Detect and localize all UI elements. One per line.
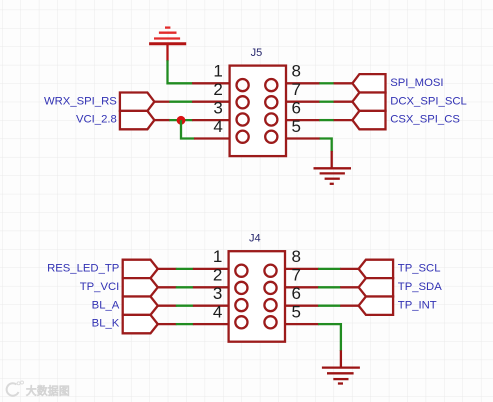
J4 pin circles (235, 265, 276, 329)
svg-text:BL_A: BL_A (92, 299, 120, 311)
wire stub from left port pin2 J4 (158, 286, 177, 288)
J5 pin circles (237, 79, 278, 143)
wire pin7 J4 (318, 286, 341, 288)
wire stub to port pin8 J4 (340, 268, 359, 270)
pin 4 stub J4 (193, 323, 230, 325)
J5 pin numbers right (292, 62, 301, 136)
svg-text:3: 3 (213, 98, 222, 117)
svg-text:RES_LED_TP: RES_LED_TP (47, 263, 119, 275)
svg-text:BL_K: BL_K (92, 318, 120, 330)
port WRX_SPI_RS (120, 93, 154, 111)
wire pin4 J4 (176, 323, 194, 325)
svg-text:2: 2 (213, 80, 222, 99)
wire pin6 J5 (319, 119, 334, 121)
wire pin8 J4 (318, 268, 341, 270)
pin 1 stub J5 (192, 82, 231, 84)
wire pin2 J4 (176, 286, 194, 288)
port CSX_SPI_CS (352, 111, 385, 129)
wire stub from VCI_2.8 port (154, 119, 170, 121)
wire pin8 J5 (319, 82, 334, 84)
pin 8 stub J5 (285, 82, 320, 84)
svg-text:1: 1 (213, 247, 222, 266)
svg-text:SPI_MOSI: SPI_MOSI (390, 77, 443, 89)
connector J4 body (229, 251, 285, 342)
wire stub to port pin6 (334, 119, 353, 121)
pin 7 stub J5 (285, 101, 320, 103)
port TP_SCL (359, 260, 394, 278)
svg-text:TP_INT: TP_INT (398, 299, 437, 311)
pin 6 stub J4 (284, 305, 319, 307)
pin 5 stub J4 (284, 323, 319, 325)
junction dot node VCI_2.8 (177, 116, 186, 125)
port DCX_SPI_SCL (352, 93, 385, 111)
svg-text:VCI_2.8: VCI_2.8 (76, 114, 117, 126)
svg-text:TP_SCL: TP_SCL (398, 263, 441, 275)
svg-text:4: 4 (213, 302, 222, 321)
watermark (7, 381, 70, 398)
pin 6 stub J5 (285, 119, 320, 121)
wire stub from WRX_SPI_RS port (154, 101, 170, 103)
wire pin2 J5 (169, 101, 192, 103)
ground stem J5 (331, 151, 333, 168)
pin 8 stub J4 (284, 268, 319, 270)
ground GND2 (322, 368, 360, 384)
svg-text:6: 6 (292, 98, 301, 117)
wire stub from left port pin1 J4 (158, 268, 177, 270)
svg-text:CSX_SPI_CS: CSX_SPI_CS (390, 114, 460, 126)
wire pin5 J5 to ground (320, 139, 332, 152)
svg-text:1: 1 (213, 62, 222, 81)
wire pin3 J4 (176, 305, 194, 307)
wire pin5 J4 to ground (318, 324, 341, 351)
svg-text:J4: J4 (249, 232, 261, 244)
svg-text:J5: J5 (251, 47, 263, 59)
svg-text:TP_SDA: TP_SDA (398, 281, 442, 293)
svg-text:8: 8 (292, 62, 301, 81)
svg-text:5: 5 (292, 117, 301, 136)
pin 7 stub J4 (284, 286, 319, 288)
pin 3 stub J4 (193, 305, 230, 307)
power symbol PWR (inverted earth) (149, 28, 186, 62)
pin 1 stub J4 (193, 268, 230, 270)
wire branch dot to pin4 J5 (181, 120, 195, 138)
pin 4 stub J5 (194, 137, 231, 139)
pin 3 stub J5 (192, 119, 231, 121)
svg-text:TP_VCI: TP_VCI (80, 281, 120, 293)
svg-text:WRX_SPI_RS: WRX_SPI_RS (44, 95, 117, 107)
wire pin1 J4 (176, 268, 194, 270)
J4 pin numbers right (292, 247, 301, 321)
wire stub to port pin6 J4 (340, 305, 359, 307)
J4 pin numbers left (213, 247, 222, 321)
pin 5 stub J5 (285, 137, 320, 139)
wire stub to port pin8 (334, 82, 353, 84)
wire pin6 J4 (318, 305, 341, 307)
J5 pin numbers left (213, 62, 222, 136)
ground stem J4 (340, 350, 342, 367)
wire stub to port pin7 J4 (340, 286, 359, 288)
svg-text:3: 3 (213, 284, 222, 303)
wire pin7 J5 (319, 101, 334, 103)
pin 2 stub J4 (193, 286, 230, 288)
svg-text:6: 6 (292, 284, 301, 303)
svg-text:2: 2 (213, 266, 222, 285)
svg-text:DCX_SPI_SCL: DCX_SPI_SCL (390, 95, 467, 107)
wire stub from left port pin3 J4 (158, 305, 177, 307)
port VCI_2.8 (120, 111, 154, 129)
connector J5 body (230, 66, 286, 157)
svg-text:7: 7 (292, 266, 301, 285)
port TP_INT (359, 297, 394, 315)
svg-text:大数据图: 大数据图 (26, 384, 70, 398)
port TP_VCI (123, 278, 158, 296)
port RES_LED_TP (123, 260, 158, 278)
port TP_SDA (359, 278, 394, 296)
wire pin1 J5 from power symbol (168, 60, 193, 83)
port BL_K (123, 315, 158, 333)
wire pin3 J5 (169, 119, 192, 121)
svg-text:5: 5 (292, 302, 301, 321)
svg-text:7: 7 (292, 80, 301, 99)
port SPI_MOSI (352, 74, 385, 92)
wire stub from left port pin4 J4 (158, 323, 177, 325)
svg-text:8: 8 (292, 247, 301, 266)
wire stub to port pin7 (334, 101, 353, 103)
ground GND1 (314, 168, 352, 184)
port BL_A (123, 297, 158, 315)
svg-text:4: 4 (213, 117, 222, 136)
pin 2 stub J5 (192, 101, 231, 103)
